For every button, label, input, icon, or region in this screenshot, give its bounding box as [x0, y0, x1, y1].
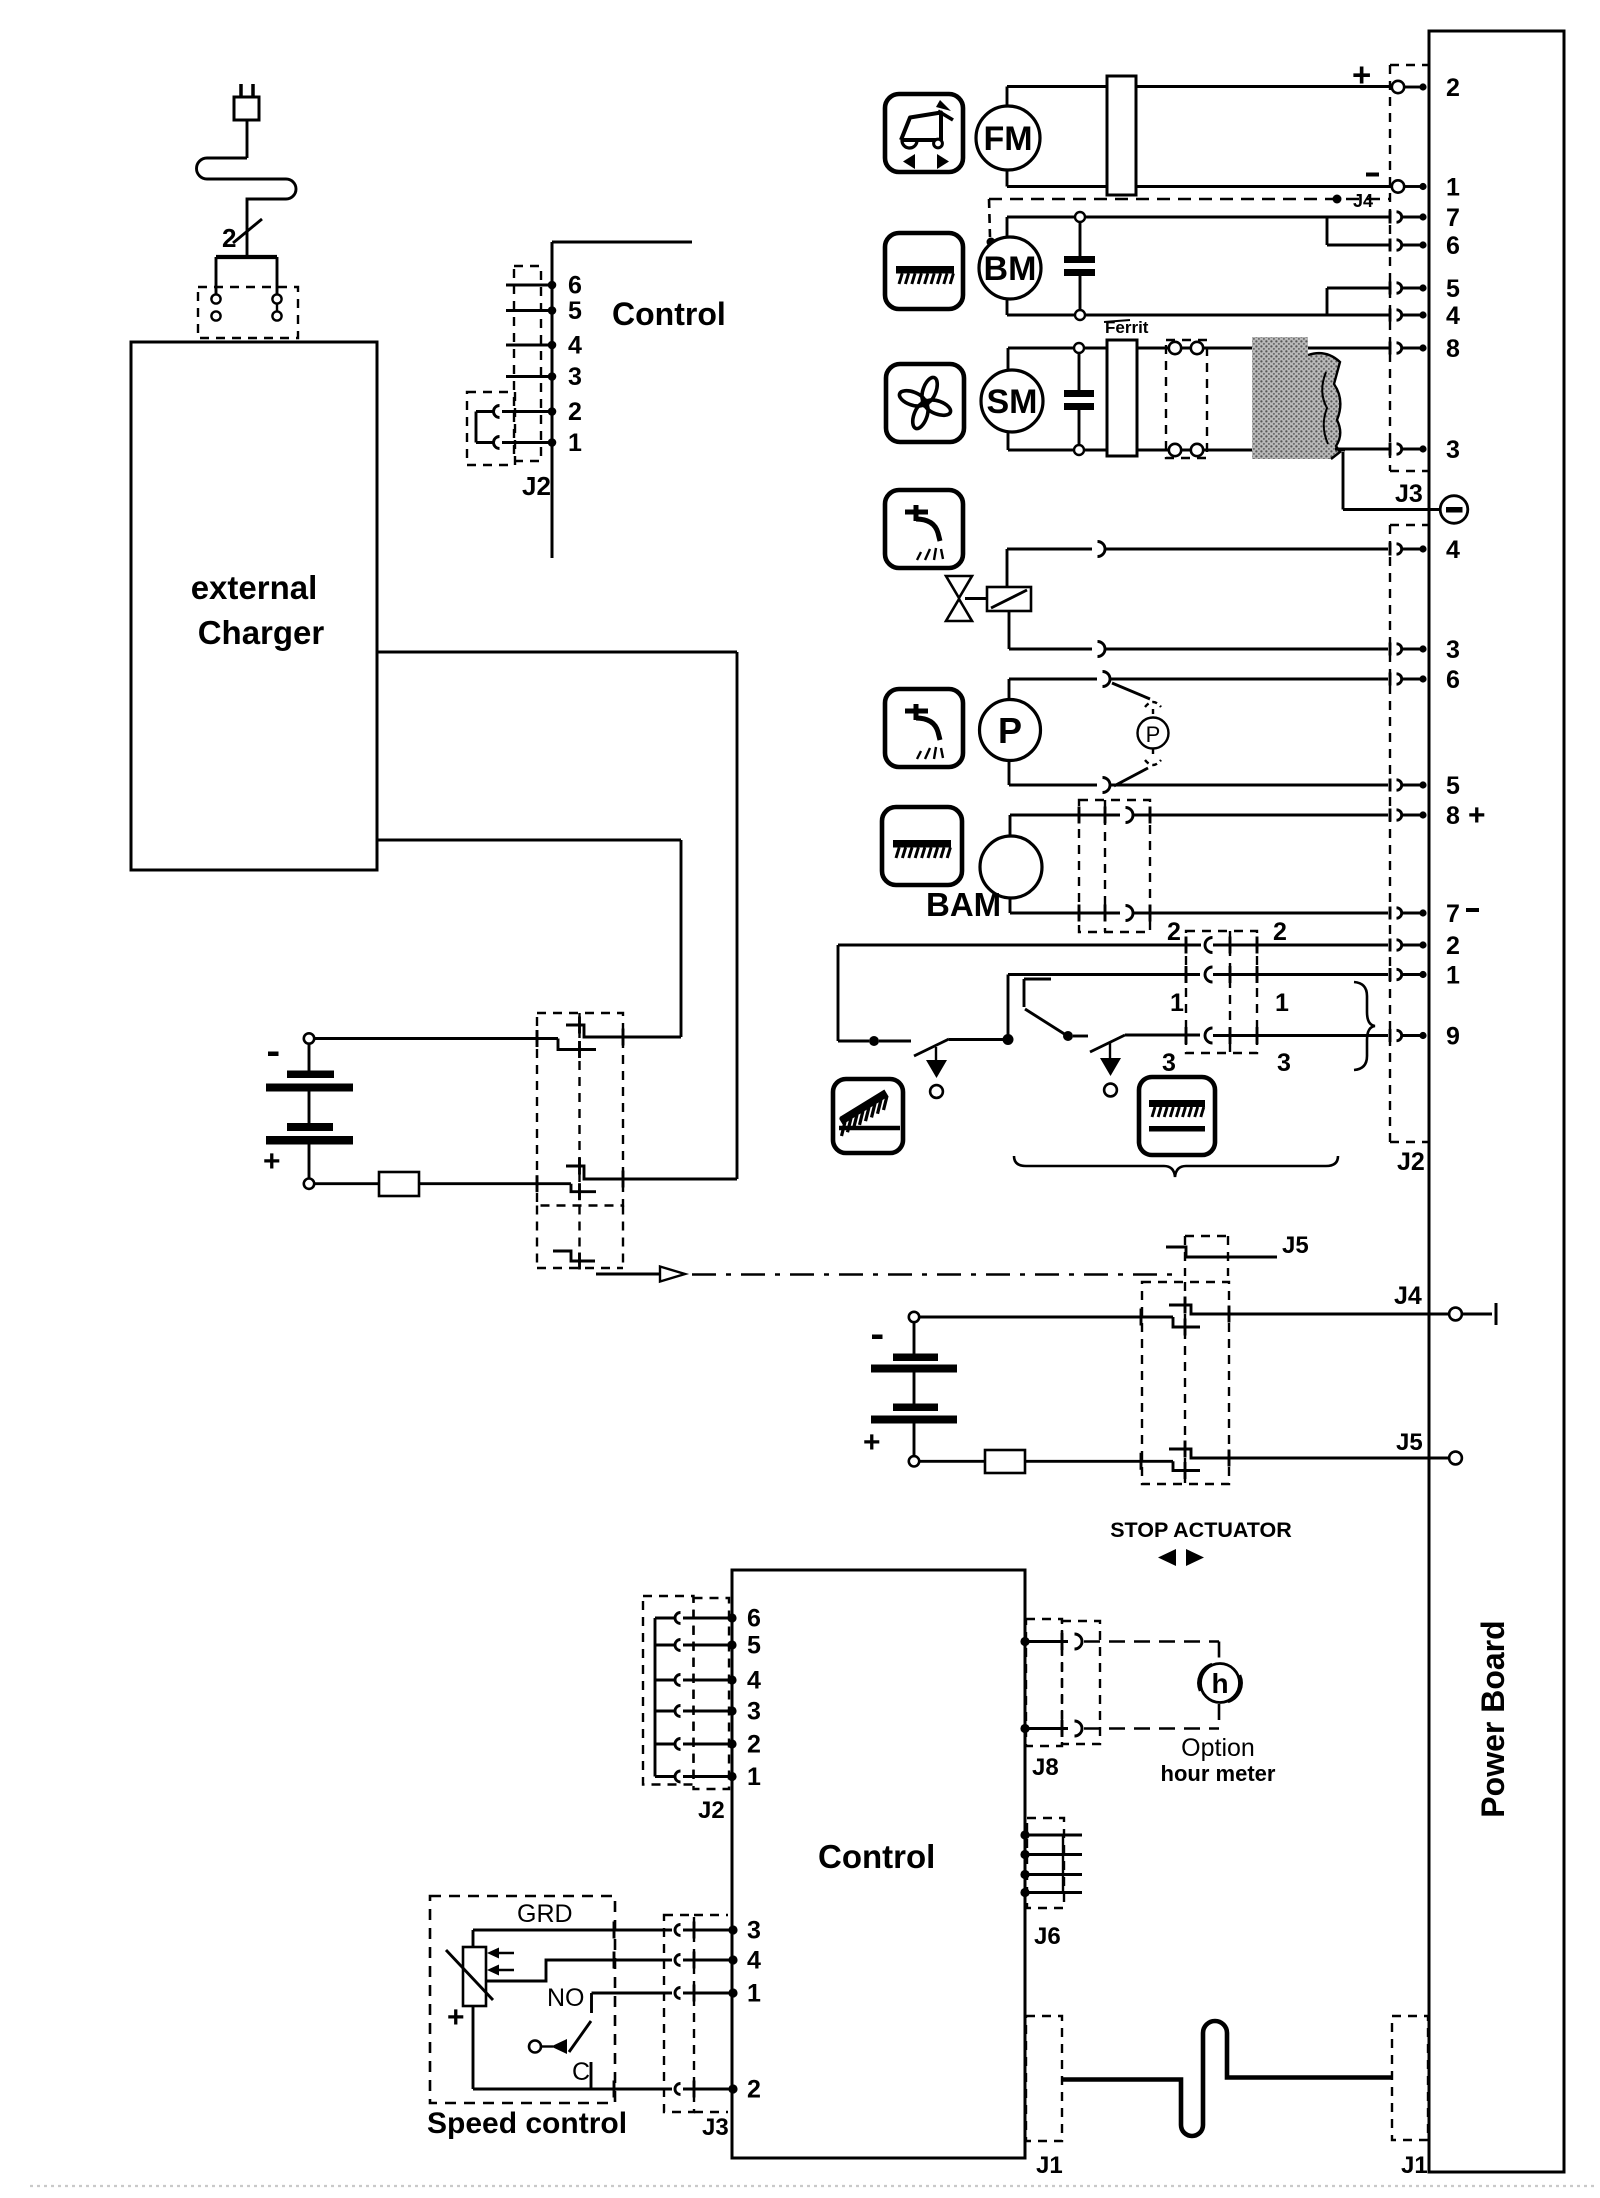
svg-text:Power Board: Power Board: [1475, 1620, 1511, 1817]
connector J6: [1020, 1830, 1029, 1839]
svg-text:5: 5: [747, 1632, 761, 1660]
battery GB2: [893, 1354, 938, 1362]
svg-text:J1: J1: [1401, 2152, 1428, 2179]
svg-text:hour meter: hour meter: [1161, 1761, 1276, 1786]
icon brush tilt: [833, 1079, 903, 1153]
svg-text:1: 1: [1446, 962, 1460, 990]
J5 terminal: [1449, 1452, 1462, 1465]
svg-text:1: 1: [747, 1980, 761, 2008]
wire battery1 plus: [419, 1182, 571, 1185]
battery GB1 plus terminal: [304, 1179, 314, 1189]
svg-text:Charger: Charger: [198, 614, 325, 651]
wire hour meter dashed: [1084, 1640, 1219, 1643]
J2 pin 9: [1389, 1029, 1392, 1042]
svg-text:J5: J5: [1396, 1429, 1423, 1456]
stop actuator housing: [1142, 1282, 1229, 1484]
svg-text:+: +: [1468, 799, 1486, 832]
wire FM-: [1006, 170, 1009, 187]
J3 control pin 1: [728, 1988, 737, 1997]
svg-text:1: 1: [568, 429, 582, 457]
svg-text:GRD: GRD: [517, 1900, 573, 1928]
motor P pump: [980, 700, 1041, 761]
J2 control jumper link: [475, 412, 478, 443]
connector J2 bottom housing: [643, 1596, 694, 1785]
key switch housing: [536, 1206, 538, 1269]
J2 control pin 3: [548, 372, 557, 381]
svg-text:5: 5: [1446, 275, 1460, 303]
wire SM top: [1007, 348, 1010, 370]
J4 terminal: [1449, 1308, 1462, 1321]
svg-text:1: 1: [747, 1763, 761, 1791]
wire pump top: [1008, 679, 1011, 700]
svg-text:3: 3: [1162, 1049, 1176, 1077]
svg-text:7: 7: [1446, 204, 1460, 232]
svg-text:2: 2: [747, 2076, 761, 2104]
wire dash-dot link: [692, 1273, 1172, 1276]
control board A2 box: [732, 1570, 1025, 2158]
svg-text:1: 1: [1446, 174, 1460, 202]
battery connector contact top: [566, 1025, 681, 1037]
wire battery2 plus: [1025, 1460, 1173, 1463]
svg-text:3: 3: [568, 363, 582, 391]
svg-text:J5: J5: [1282, 1232, 1309, 1259]
svg-text:2: 2: [568, 398, 582, 426]
svg-text:J1: J1: [1036, 2152, 1063, 2179]
J2 control pin 1: [548, 438, 557, 447]
svg-text:P: P: [998, 710, 1022, 751]
icon water pump: [885, 689, 963, 767]
wire switch feed pin 2: [838, 944, 1201, 947]
J2 control pin 4: [548, 341, 557, 350]
svg-text:2: 2: [1446, 74, 1460, 102]
connector BAM housing: [1079, 800, 1150, 932]
wire BM top: [1006, 217, 1009, 237]
svg-text:+: +: [863, 1426, 881, 1459]
motor BAM actuator: [980, 836, 1042, 898]
svg-text:6: 6: [747, 1605, 761, 1633]
J3 pin 8: [1389, 342, 1392, 355]
connector J3 housing bottom: [664, 1915, 694, 2112]
minus output terminal: [1440, 496, 1468, 524]
svg-text:NO: NO: [547, 1984, 585, 2012]
switch S2 fixed contact: [1024, 978, 1051, 981]
potentiometer R1: [463, 1947, 486, 2006]
svg-text:1: 1: [1275, 989, 1289, 1017]
connector J1 control housing: [1026, 2016, 1062, 2141]
svg-text:J2: J2: [522, 471, 551, 501]
switch S3 actuator: [1109, 1043, 1111, 1058]
J2 pin 2: [1389, 939, 1392, 952]
pressure switch P: [1145, 702, 1161, 707]
battery GB2 minus terminal: [909, 1312, 919, 1322]
svg-text:Option: Option: [1181, 1734, 1255, 1762]
J2 control pin 2: [548, 407, 557, 416]
svg-text:C: C: [572, 2058, 590, 2086]
wire charger output 2: [377, 839, 681, 842]
svg-text:BAM: BAM: [926, 886, 1001, 923]
wire to pin 5: [1326, 288, 1329, 315]
svg-text:3: 3: [1277, 1049, 1291, 1077]
svg-text:J2: J2: [698, 1797, 725, 1824]
connector J8 housing: [1026, 1619, 1062, 1746]
J2 bottom pin 2: [727, 1739, 736, 1748]
switch S4 blade: [569, 2021, 591, 2052]
svg-text:6: 6: [568, 272, 582, 300]
svg-text:+: +: [447, 2001, 465, 2034]
J2 bottom pin 3: [727, 1706, 736, 1715]
wire battery2 minus: [919, 1316, 1173, 1319]
wire block to minus terminal: [1342, 452, 1345, 510]
J3 control pin 3: [728, 1925, 737, 1934]
svg-text:J2: J2: [1397, 1148, 1425, 1176]
svg-text:STOP ACTUATOR: STOP ACTUATOR: [1110, 1518, 1292, 1542]
charger connector X1: [216, 255, 277, 259]
wire pump bottom: [1008, 760, 1011, 785]
J2 pin 5: [1389, 779, 1392, 792]
contact J5: [1169, 1449, 1448, 1458]
wire BAM top: [1009, 815, 1012, 836]
svg-text:8: 8: [1446, 802, 1460, 830]
svg-text:6: 6: [1446, 232, 1460, 260]
svg-text:2: 2: [1273, 918, 1287, 946]
wire block to pin 8: [1310, 347, 1391, 350]
wire valve top: [1006, 549, 1009, 587]
hour meter h: [1201, 1664, 1240, 1703]
switch S2 blade: [1025, 1009, 1066, 1035]
node A: [869, 1036, 879, 1046]
mains plug P1: [239, 84, 243, 97]
connector J1 power housing: [1392, 2016, 1428, 2140]
capacitor C-SM: [1078, 353, 1081, 391]
svg-text:4: 4: [747, 1947, 761, 1975]
svg-text:9: 9: [1446, 1023, 1460, 1051]
svg-text:P: P: [1146, 722, 1161, 747]
J2 bottom pin 4: [727, 1675, 736, 1684]
connector switch housing: [1186, 931, 1257, 1053]
capacitor C-BM: [1079, 222, 1082, 257]
svg-text:2: 2: [1167, 918, 1181, 946]
switch S4 button: [529, 2041, 541, 2053]
J3 control pin 4: [728, 1955, 737, 1964]
svg-text:3: 3: [747, 1917, 761, 1945]
J2 control pin 6: [548, 281, 557, 290]
svg-text:6: 6: [1446, 666, 1460, 694]
J3 control pin 2: [728, 2084, 737, 2093]
svg-text:Speed control: Speed control: [427, 2107, 627, 2140]
contact J4: [1169, 1305, 1448, 1314]
solenoid valve Y1: [946, 576, 972, 598]
svg-text:SM: SM: [987, 383, 1038, 421]
svg-text:5: 5: [1446, 772, 1460, 800]
svg-text:J4: J4: [1353, 191, 1373, 211]
fuse F1: [1107, 76, 1136, 195]
svg-text:+: +: [1352, 56, 1371, 93]
svg-text:7: 7: [1446, 900, 1460, 928]
brace to pin 9: [1354, 982, 1375, 1070]
icon water supply: [885, 490, 963, 568]
wire to pin 6: [1326, 217, 1329, 245]
svg-text:J3: J3: [1395, 480, 1423, 508]
J3 pin 2: [1392, 81, 1404, 93]
J2 bottom jumper bus: [654, 1618, 657, 1777]
wire pot wiper to pin4: [486, 1960, 672, 1981]
minus label: [1366, 173, 1379, 177]
wire FM+: [1006, 87, 1009, 107]
svg-text:2: 2: [222, 223, 236, 253]
J2 pin 3: [1389, 643, 1392, 656]
svg-text:J3: J3: [702, 2114, 729, 2141]
svg-text:4: 4: [747, 1667, 761, 1695]
wire valve bottom: [1008, 611, 1011, 649]
node C: [1063, 1031, 1073, 1041]
wire pot bottom: [472, 2006, 475, 2089]
svg-text:h: h: [1211, 1668, 1228, 1699]
J2 control pin 5: [548, 306, 557, 315]
svg-text:8: 8: [1446, 335, 1460, 363]
J2 bottom pin 6: [727, 1613, 736, 1622]
svg-text:5: 5: [568, 297, 582, 325]
wiper arrows: [495, 1952, 514, 1955]
node B: [1003, 1034, 1014, 1045]
control board A1 edge: [552, 241, 692, 244]
connector J6 housing: [1027, 1818, 1064, 1908]
svg-text:4: 4: [568, 332, 582, 360]
switch S1 blade: [914, 1039, 949, 1056]
J3 pin 6: [1389, 239, 1392, 252]
svg-text:3: 3: [1446, 436, 1460, 464]
svg-text:J6: J6: [1034, 1923, 1061, 1950]
J3 pin 5: [1389, 282, 1392, 295]
motor FM: [976, 106, 1040, 170]
wire J4 sense dashed: [989, 198, 1390, 201]
J3 pin 7: [1389, 211, 1392, 224]
J2 bottom pin 1: [727, 1772, 736, 1781]
key switch contact: [553, 1251, 595, 1261]
battery connector contact bottom: [566, 1166, 737, 1179]
svg-text:3: 3: [1446, 636, 1460, 664]
svg-text:Control: Control: [612, 296, 726, 332]
J2 pin 8: [1389, 809, 1392, 822]
svg-text:1: 1: [1170, 989, 1184, 1017]
J3 pin 1: [1392, 180, 1404, 192]
junction circles BM: [1075, 212, 1085, 222]
wire SM bottom: [1007, 432, 1010, 450]
wire block to pin 3: [1335, 448, 1391, 451]
J2 pin 4: [1389, 543, 1392, 556]
scan artifact line: [30, 2185, 1595, 2187]
connector SM inline: [1166, 340, 1207, 458]
connector J5 switch: [1166, 1247, 1277, 1257]
icon squeegee: [885, 94, 963, 172]
junction circles SM: [1074, 343, 1084, 353]
battery connector housing: [537, 1013, 623, 1206]
wire BAM bottom: [1009, 898, 1012, 913]
icon brush flat: [1139, 1077, 1215, 1155]
wire battery1 minus: [314, 1037, 558, 1040]
motor SM: [981, 370, 1043, 432]
svg-text:+: +: [263, 1145, 281, 1178]
fuse F3: [919, 1460, 986, 1463]
svg-text:4: 4: [1446, 536, 1460, 564]
J2 control connector housing: [514, 266, 541, 461]
battery GB1 minus terminal: [304, 1033, 314, 1043]
wire harness J1-J1: [1062, 2021, 1392, 2136]
svg-text:4: 4: [1446, 302, 1460, 330]
svg-text:J4: J4: [1394, 1282, 1422, 1310]
J2 pin 6: [1389, 673, 1392, 686]
pressure switch lever top: [1112, 683, 1150, 699]
J3 pin 3: [1389, 443, 1392, 456]
stop actuator arrows: [1158, 1549, 1176, 1566]
svg-text:3: 3: [747, 1698, 761, 1726]
external charger box: [131, 342, 377, 870]
icon brush BM: [885, 233, 963, 309]
J2 pin 7: [1389, 907, 1392, 920]
power board U-PB box: [1429, 31, 1564, 2172]
wire plug cord: [246, 120, 249, 158]
J2 bottom pin 5: [727, 1640, 736, 1649]
J3 pin 4: [1389, 309, 1392, 322]
J2 pin 1: [1389, 968, 1392, 981]
wire BM bottom: [1006, 299, 1009, 315]
connector J8: [1020, 1637, 1029, 1646]
wire GRD: [473, 1929, 672, 1932]
wire riser left: [837, 945, 840, 1041]
wire to stop actuator arrow: [596, 1273, 660, 1276]
connector J2 housing right: [1389, 525, 1391, 1142]
wire charger output 1: [377, 651, 737, 654]
svg-text:external: external: [191, 569, 318, 606]
svg-text:2: 2: [1446, 932, 1460, 960]
motor BM: [979, 237, 1041, 299]
battery GB2 plus terminal: [909, 1456, 919, 1466]
connector J3 housing: [1389, 65, 1391, 471]
switch S1 actuator: [935, 1047, 937, 1060]
wire riser pin 1: [1007, 975, 1010, 1040]
cable marker 2 wires: [233, 219, 262, 243]
speed control housing: [430, 1896, 615, 2103]
J5 switch housing: [1184, 1236, 1186, 1276]
switch S3 blade: [1090, 1035, 1125, 1052]
icon fan: [886, 364, 964, 442]
svg-text:2: 2: [747, 1731, 761, 1759]
battery GB1: [287, 1071, 334, 1079]
suppressor block shaded: [1252, 337, 1340, 459]
fuse F2: [314, 1182, 380, 1185]
svg-text:FM: FM: [983, 120, 1032, 158]
svg-text:Control: Control: [818, 1838, 935, 1875]
icon brush BAM: [882, 807, 962, 885]
pressure switch lever bottom: [1114, 768, 1148, 786]
brace bottom group: [1014, 1156, 1338, 1177]
svg-text:BM: BM: [984, 250, 1037, 288]
svg-text:J8: J8: [1032, 1754, 1059, 1781]
ferrite core: [1107, 340, 1137, 456]
